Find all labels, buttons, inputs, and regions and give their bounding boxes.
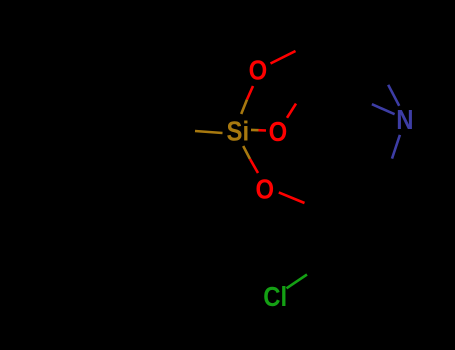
wire: O3-CH bond red half — [279, 192, 305, 203]
wire: O1-CH2 bond red half — [271, 51, 296, 64]
wire: N-CH2 bond c (blue half, lower) — [392, 135, 400, 159]
svg-text:O: O — [256, 175, 275, 205]
wire: Si-O3 bond gold half — [243, 146, 250, 159]
svg-text:Cl: Cl — [263, 282, 287, 312]
wire: Si-O2 bond gold half — [251, 129, 259, 132]
svg-text:O: O — [249, 56, 268, 86]
wire: N-CH2 bond a (blue half, upper steep) — [388, 85, 399, 106]
wire: N-CH2 bond b (blue half, upper shallow) — [372, 104, 395, 114]
svg-text:O: O — [269, 118, 288, 148]
svg-text:N: N — [396, 106, 413, 136]
svg-text:Si: Si — [227, 117, 250, 147]
wire: Si-O2 bond red half — [259, 129, 267, 132]
wire: Si-O1 bond red half — [247, 86, 253, 100]
wire: Si-O3 bond red half — [250, 159, 258, 173]
wire: methyl-Si bond (gold half) — [195, 131, 223, 133]
wire: Si-O1 bond gold half — [241, 100, 247, 115]
wire: Cl-CH2 bond green half — [287, 275, 308, 289]
wire: O2-CH2 bond red half — [287, 104, 296, 118]
